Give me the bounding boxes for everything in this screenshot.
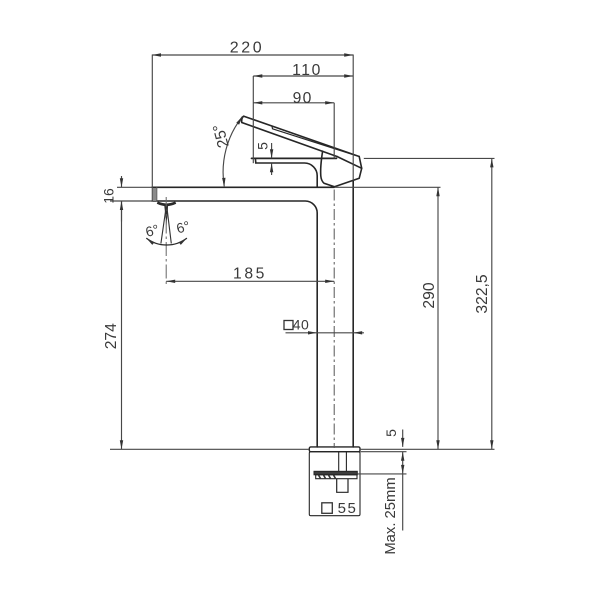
svg-text:110: 110 — [292, 62, 322, 79]
svg-text:274: 274 — [103, 323, 120, 349]
svg-text:40: 40 — [293, 316, 310, 332]
svg-text:Max. 25mm: Max. 25mm — [383, 477, 399, 554]
svg-text:55: 55 — [338, 500, 358, 517]
svg-text:5: 5 — [255, 142, 271, 150]
svg-text:290: 290 — [421, 282, 438, 308]
svg-text:220: 220 — [230, 39, 265, 56]
svg-text:322,5: 322,5 — [474, 274, 491, 314]
svg-text:5: 5 — [383, 429, 399, 437]
svg-text:90: 90 — [293, 90, 313, 107]
svg-text:16: 16 — [101, 188, 117, 204]
svg-text:185: 185 — [233, 265, 267, 282]
